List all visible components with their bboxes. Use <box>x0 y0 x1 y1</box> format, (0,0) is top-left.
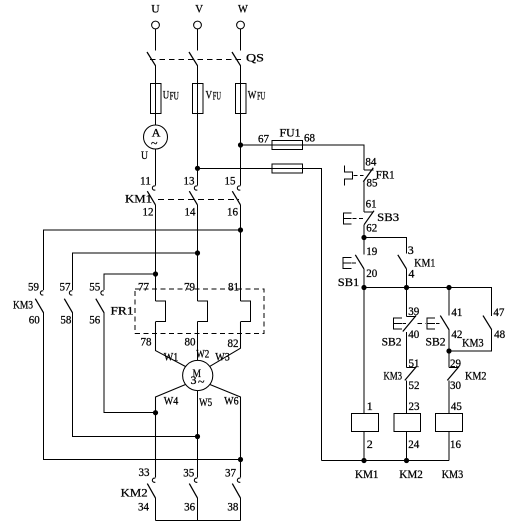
svg-text:SB3: SB3 <box>377 210 399 224</box>
ammeter A <box>141 125 168 162</box>
svg-text:2: 2 <box>367 437 373 451</box>
svg-text:~: ~ <box>198 375 205 389</box>
pushbutton SB2 NC contact 39-40 <box>382 304 420 349</box>
svg-text:81: 81 <box>228 280 239 294</box>
svg-text:11: 11 <box>140 174 151 188</box>
wire KM1 14 down to heater 79 <box>197 205 199 301</box>
wire coil KM3 to bus <box>448 432 450 461</box>
wire loop A bottom <box>44 313 241 460</box>
wire SB2 NC branch top <box>406 288 408 317</box>
svg-text:16: 16 <box>227 205 238 219</box>
wire V terminal to QS <box>197 29 199 50</box>
svg-text:59: 59 <box>28 280 39 294</box>
svg-text:48: 48 <box>494 327 505 341</box>
svg-text:KM3: KM3 <box>442 467 464 481</box>
pushbutton SB2 NO contact 41-42 <box>426 305 463 348</box>
svg-text:FU: FU <box>213 88 221 102</box>
wire KM2 34 to bottom bus <box>155 498 157 520</box>
wire loop B top <box>73 253 198 290</box>
wire node to KM2 NC 29 <box>448 351 450 368</box>
terminal V <box>194 21 202 29</box>
svg-text:W2: W2 <box>196 347 209 361</box>
wire FU1 to FR1 contact 84 <box>303 145 365 170</box>
fuse WFU <box>235 83 265 113</box>
svg-text:34: 34 <box>138 500 149 514</box>
junction SB2 branch <box>446 285 451 290</box>
wire QS to fuse UFU <box>155 66 157 84</box>
node 67 wire W column to FU1 <box>241 144 273 146</box>
svg-text:KM2: KM2 <box>399 467 423 481</box>
label KM3 coil <box>442 467 464 481</box>
svg-text:37: 37 <box>225 466 236 480</box>
svg-text:79: 79 <box>184 280 195 294</box>
svg-text:38: 38 <box>227 500 238 514</box>
motor M 3~ <box>164 347 239 410</box>
svg-text:33: 33 <box>139 465 150 479</box>
svg-text:41: 41 <box>451 305 462 319</box>
svg-text:20: 20 <box>366 266 377 280</box>
svg-text:30: 30 <box>450 378 461 392</box>
wire motor W4 to KM2 contact 33 <box>156 385 186 478</box>
svg-text:KM2: KM2 <box>465 368 487 382</box>
wire SB2 40 to KM3 NC 51 <box>406 332 408 368</box>
wire ammeter to KM1 contact 11 <box>155 149 157 185</box>
wire heater 80 to motor W2 <box>197 322 199 361</box>
wire motor W6 to KM2 contact 37 <box>210 385 241 478</box>
svg-text:55: 55 <box>89 280 100 294</box>
junction W column loop A <box>238 227 243 232</box>
svg-text:~: ~ <box>151 136 158 150</box>
wire heater 82 to motor W3 <box>210 322 241 367</box>
svg-text:77: 77 <box>138 280 149 294</box>
wire fuse WFU to KM1 contact 15 <box>240 113 242 185</box>
wire QS to fuse VFU <box>197 66 199 84</box>
junction after SB3 <box>361 235 366 240</box>
contactor KM3 NC contact 51-52 <box>384 356 420 392</box>
svg-text:FU: FU <box>257 88 265 102</box>
wire fuse UFU to ammeter <box>155 113 157 125</box>
svg-text:W4: W4 <box>164 394 179 408</box>
svg-text:KM1: KM1 <box>125 192 152 206</box>
svg-text:FR1: FR1 <box>376 168 395 182</box>
node W <box>238 2 248 16</box>
svg-text:W3: W3 <box>215 350 230 364</box>
label KM1 coil <box>355 467 379 481</box>
thermal relay FR1 heaters <box>111 280 265 351</box>
svg-text:52: 52 <box>409 378 420 392</box>
fuse FU1 upper <box>258 126 315 150</box>
wire QS to fuse WFU <box>240 66 242 84</box>
svg-text:KM1: KM1 <box>414 255 435 269</box>
svg-text:U: U <box>141 148 148 162</box>
wire KM2 30 to coil KM3 <box>448 380 450 413</box>
contactor KM3 main contacts <box>13 280 104 327</box>
svg-text:23: 23 <box>409 399 420 413</box>
junction W6 line <box>238 457 243 462</box>
svg-text:60: 60 <box>29 313 40 327</box>
svg-text:W5: W5 <box>199 395 212 409</box>
wire loop C bottom <box>104 313 156 413</box>
wire control bottom bus <box>322 460 449 462</box>
wire KM1 4 to node <box>406 269 408 288</box>
svg-text:FU: FU <box>170 88 179 102</box>
svg-text:U: U <box>163 87 170 101</box>
fuse FU1 lower <box>272 164 303 173</box>
svg-text:SB1: SB1 <box>338 275 360 289</box>
wire FU1 lower to left control rail <box>303 168 322 460</box>
wire U terminal to QS <box>155 29 157 50</box>
label KM2 coil <box>399 467 423 481</box>
wire node row to KM3 branch <box>364 288 492 316</box>
wire coil KM2 to bus <box>406 432 408 461</box>
junction on W column <box>238 142 243 147</box>
wire W terminal to QS <box>240 29 242 50</box>
contactor KM1 aux NO contact 3-4 <box>398 243 436 280</box>
contactor KM2 NC contact 29-30 <box>447 356 486 392</box>
svg-text:W: W <box>248 87 257 101</box>
svg-text:39: 39 <box>408 304 419 318</box>
svg-text:W1: W1 <box>164 350 179 364</box>
wire motor W5 to KM2 contact 35 <box>197 391 199 478</box>
svg-text:14: 14 <box>185 205 196 219</box>
contactor KM1 main contacts <box>125 174 241 219</box>
junction W4 line <box>153 410 158 415</box>
svg-text:84: 84 <box>365 154 376 168</box>
svg-text:12: 12 <box>143 205 154 219</box>
pin 24 <box>408 437 419 451</box>
junction V column loop B <box>195 250 200 255</box>
coil KM2 <box>394 414 421 432</box>
fuse VFU <box>192 83 221 113</box>
wire KM3 48 to node <box>449 330 492 351</box>
pin 45 <box>451 399 462 413</box>
svg-text:QS: QS <box>246 51 264 65</box>
svg-text:KM3: KM3 <box>384 368 403 382</box>
junction SB2-KM3 node <box>446 348 451 353</box>
svg-text:47: 47 <box>493 305 504 319</box>
svg-text:V: V <box>206 87 213 101</box>
pushbutton SB3 NC contact 61-62 <box>343 197 399 235</box>
wire KM3 52 to coil KM2 <box>406 380 408 413</box>
junction on V column <box>195 166 200 171</box>
pin 2 <box>367 437 373 451</box>
svg-text:62: 62 <box>366 221 377 235</box>
wire KM2 38 to bottom bus <box>240 498 242 520</box>
svg-text:3: 3 <box>191 373 197 387</box>
svg-text:61: 61 <box>366 197 377 211</box>
svg-text:36: 36 <box>184 500 195 514</box>
svg-text:19: 19 <box>366 244 377 258</box>
wire FR1 85 to SB3 61 <box>363 182 365 212</box>
wire heater 78 to motor W1 <box>156 322 186 367</box>
wire SB2 NO branch top <box>448 288 450 316</box>
wire SB3 62 to node <box>363 225 365 238</box>
wire V column to FU1 lower <box>198 167 273 169</box>
wire loop C top <box>104 274 156 290</box>
pin 1 <box>367 399 373 413</box>
svg-text:W: W <box>238 2 248 16</box>
svg-text:SB2: SB2 <box>382 334 402 348</box>
wire loop B bottom <box>73 313 198 437</box>
svg-text:SB2: SB2 <box>426 334 446 348</box>
wire node to KM1 aux branch <box>364 238 407 254</box>
svg-text:V: V <box>195 2 203 16</box>
pin 23 <box>409 399 420 413</box>
contactor KM3 aux NO contact 47-48 <box>462 305 505 349</box>
svg-text:13: 13 <box>184 174 195 188</box>
wire SB1 20 to node <box>363 269 365 288</box>
svg-text:68: 68 <box>304 131 315 145</box>
wire coil KM1 to bus <box>363 432 365 461</box>
svg-text:KM2: KM2 <box>121 486 148 500</box>
terminal W <box>237 21 245 29</box>
wire KM1 12 down to heater 77 <box>155 205 157 301</box>
coil KM1 <box>352 414 379 432</box>
svg-text:45: 45 <box>451 399 462 413</box>
svg-text:15: 15 <box>225 174 236 188</box>
wire fuse VFU to KM1 contact 13 <box>197 113 199 185</box>
pushbutton SB1 NO contact 19-20 <box>338 238 378 290</box>
coil KM3 <box>436 414 463 432</box>
wire SB2 42 to node <box>448 330 450 351</box>
svg-text:KM1: KM1 <box>355 467 379 481</box>
svg-text:3: 3 <box>408 243 414 257</box>
svg-text:56: 56 <box>89 313 100 327</box>
svg-text:FR1: FR1 <box>111 304 134 318</box>
terminal U <box>152 21 160 29</box>
svg-text:40: 40 <box>408 327 419 341</box>
svg-text:67: 67 <box>258 131 269 145</box>
svg-text:57: 57 <box>60 280 71 294</box>
svg-text:16: 16 <box>450 437 461 451</box>
contactor KM2 main contacts <box>121 465 241 514</box>
junction SB1 bottom <box>361 285 366 290</box>
wire SB2 linkage dashes <box>418 322 426 324</box>
svg-text:78: 78 <box>141 335 152 349</box>
svg-text:42: 42 <box>451 327 462 341</box>
svg-text:24: 24 <box>408 437 419 451</box>
switch QS <box>147 51 264 66</box>
svg-text:35: 35 <box>183 466 194 480</box>
node V <box>195 2 203 16</box>
svg-text:FU1: FU1 <box>280 126 301 140</box>
svg-text:82: 82 <box>228 336 239 350</box>
junction W5 line <box>195 434 200 439</box>
thermal relay FR1 NC contact 84-85 <box>344 154 394 189</box>
svg-text:1: 1 <box>367 399 373 413</box>
junction KM1 aux bottom <box>404 285 409 290</box>
wire KM2 36 to bottom bus <box>197 498 199 520</box>
svg-text:KM3: KM3 <box>13 298 33 312</box>
svg-text:KM3: KM3 <box>462 335 484 349</box>
wire KM1 coil rail <box>363 288 365 414</box>
node U <box>151 2 160 16</box>
junction U column loop C <box>153 271 158 276</box>
wire KM1 16 down to heater 81 <box>240 205 242 301</box>
wire bottom bus <box>156 520 241 522</box>
svg-text:58: 58 <box>60 313 71 327</box>
fuse UFU <box>150 83 179 113</box>
pin 16 <box>450 437 461 451</box>
junction coil KM1 bus <box>361 458 366 463</box>
svg-text:80: 80 <box>185 335 196 349</box>
svg-text:U: U <box>151 2 160 16</box>
wire loop A top <box>44 230 241 290</box>
junction coil KM2 bus <box>404 458 409 463</box>
